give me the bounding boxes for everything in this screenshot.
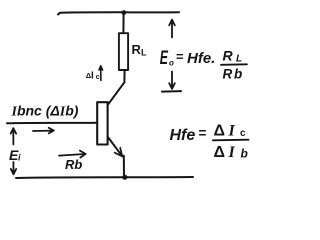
svg-text:=: = bbox=[176, 49, 184, 64]
arrow Eo down bbox=[169, 72, 175, 89]
wire base input bbox=[7, 122, 97, 125]
svg-text:Hfe.: Hfe. bbox=[187, 50, 215, 67]
svg-text:I: I bbox=[91, 71, 94, 82]
wire resistor top lead bbox=[122, 13, 124, 33]
svg-text:Hfe: Hfe bbox=[170, 127, 196, 144]
wire collector diagonal bbox=[108, 82, 124, 104]
resistor RL bbox=[119, 33, 128, 70]
svg-text:Rb: Rb bbox=[223, 67, 245, 82]
node output reference tick bbox=[162, 90, 181, 93]
fraction bar Eo bbox=[221, 63, 247, 66]
wire top supply rail bbox=[58, 12, 179, 14]
svg-text:c: c bbox=[96, 74, 100, 81]
node collector-supply junction bbox=[121, 10, 126, 15]
svg-text:=: = bbox=[199, 126, 207, 141]
svg-text:ΔI: ΔI bbox=[214, 123, 239, 140]
arrow base current direction bbox=[33, 128, 54, 134]
wire emitter vertical bbox=[123, 156, 125, 176]
arrow Ei up bbox=[11, 128, 16, 144]
node emitter-rail junction bbox=[122, 175, 127, 180]
arrow Eo up bbox=[169, 20, 175, 38]
svg-text:R: R bbox=[132, 42, 142, 57]
svg-text:R: R bbox=[223, 48, 234, 64]
svg-text:L: L bbox=[141, 47, 147, 57]
svg-text:o: o bbox=[169, 59, 174, 68]
wire resistor bottom lead bbox=[123, 70, 125, 82]
svg-text:ΔI: ΔI bbox=[214, 144, 239, 161]
svg-text:L: L bbox=[236, 54, 242, 65]
svg-text:E: E bbox=[160, 47, 169, 68]
fraction bar Hfe bbox=[213, 139, 249, 142]
arrow Ei down bbox=[11, 162, 16, 174]
svg-text:i: i bbox=[18, 153, 21, 163]
svg-text:b: b bbox=[241, 147, 248, 161]
wire emitter diagonal with arrowhead bbox=[108, 137, 123, 157]
svg-text:Ibnc (ΔIb): Ibnc (ΔIb) bbox=[11, 103, 79, 120]
arrow delta-Ic current bbox=[99, 66, 103, 81]
svg-text:c: c bbox=[240, 128, 246, 139]
svg-text:Rb: Rb bbox=[65, 157, 82, 172]
arrow Rb direction bbox=[59, 151, 86, 158]
transistor Q1 base bar bbox=[97, 102, 107, 144]
wire bottom rail bbox=[16, 177, 193, 178]
